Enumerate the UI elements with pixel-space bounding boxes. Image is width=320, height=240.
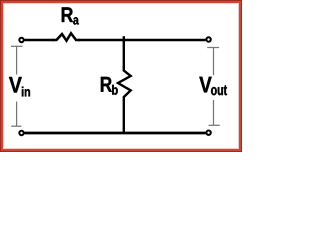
terminal top-left xyxy=(19,38,23,42)
wire middle branch upper (node A down to Rb) xyxy=(123,40,125,68)
label Vout xyxy=(199,77,227,95)
wire top rail left (Vin+ terminal to Ra) xyxy=(24,39,53,42)
resistor R_a (series, zigzag) xyxy=(52,33,80,41)
Vout dimension line right xyxy=(207,48,220,126)
terminal bottom-left xyxy=(19,131,23,135)
label Vin xyxy=(9,77,30,96)
wire top rail right (Ra to Vout+ terminal, through node A) xyxy=(79,39,206,42)
resistor R_b (shunt, vertical zigzag) xyxy=(118,66,131,101)
wire middle branch lower (Rb down to bottom rail) xyxy=(123,100,125,133)
terminal top-right xyxy=(206,37,210,41)
terminal bottom-right xyxy=(206,131,210,135)
wire bottom rail (common return) xyxy=(24,132,205,135)
label Ra xyxy=(62,7,79,24)
label Rb xyxy=(101,77,118,95)
Vin dimension line left xyxy=(11,46,22,126)
node A: junction of Ra, Rb and output at top rail xyxy=(123,36,125,41)
red frame border xyxy=(1,1,242,152)
